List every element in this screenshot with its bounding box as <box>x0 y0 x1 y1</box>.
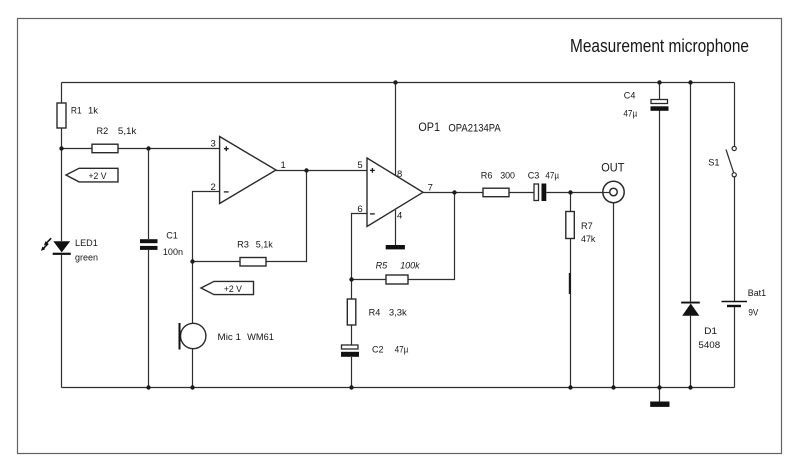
svg-text:6: 6 <box>357 204 362 215</box>
svg-text:100n: 100n <box>163 247 183 258</box>
svg-text:47µ: 47µ <box>395 344 409 355</box>
node dot R2/C1 <box>146 146 150 150</box>
svg-text:Measurement microphone: Measurement microphone <box>570 35 749 56</box>
svg-text:R1: R1 <box>71 105 82 116</box>
svg-text:5,1k: 5,1k <box>256 240 273 251</box>
svg-text:5,1k: 5,1k <box>118 126 137 137</box>
svg-text:Bat1: Bat1 <box>748 288 766 299</box>
wire C4 to bottom rail <box>659 111 661 388</box>
wire LED to bottom rail <box>61 255 63 388</box>
wire op-amp2 output <box>423 192 483 194</box>
wire R2 to op-amp1 pin3 <box>118 148 220 150</box>
svg-text:47µ: 47µ <box>545 171 559 182</box>
svg-text:1: 1 <box>281 160 286 171</box>
svg-text:1k: 1k <box>88 105 98 116</box>
wire R3 to output node <box>266 171 307 262</box>
wire feedback R5 right leg <box>408 193 455 280</box>
svg-text:R4: R4 <box>369 307 381 318</box>
svg-text:C4: C4 <box>624 91 636 102</box>
resistor R4 <box>347 299 407 325</box>
resistor R2 <box>92 126 137 153</box>
capacitor C2 <box>341 344 409 356</box>
node +2V flag 1 <box>66 168 118 182</box>
svg-text:47k: 47k <box>581 234 596 245</box>
node dot C4 top rail <box>657 80 661 84</box>
wire D1 lower <box>690 316 692 388</box>
wire top rail <box>62 82 735 84</box>
svg-text:LED1: LED1 <box>75 238 98 249</box>
svg-text:3: 3 <box>211 138 216 149</box>
wire S1 upper <box>734 83 736 147</box>
capacitor C3 <box>528 171 560 202</box>
node dot OUT bottom rail <box>611 385 615 389</box>
svg-text:C2: C2 <box>372 344 384 355</box>
svg-text:R7: R7 <box>581 221 593 232</box>
diode D1 <box>681 302 720 351</box>
svg-text:+2 V: +2 V <box>224 284 243 295</box>
wire OUT jack to bottom rail <box>613 203 615 388</box>
resistor R6 <box>481 171 515 197</box>
svg-text:D1: D1 <box>704 326 717 337</box>
svg-text:OUT: OUT <box>601 161 625 175</box>
svg-text:100k: 100k <box>400 261 421 272</box>
capacitor C4 <box>623 91 668 120</box>
microphone Mic1 <box>180 323 274 350</box>
svg-text:3,3k: 3,3k <box>389 307 407 318</box>
wire ground stub below rail <box>659 388 661 402</box>
svg-text:2: 2 <box>210 182 215 193</box>
svg-text:C1: C1 <box>166 231 178 242</box>
wire bottom rail <box>62 387 735 389</box>
wire R7 to bottom rail <box>570 239 572 388</box>
node dot pin6/R5/R4 <box>349 277 353 281</box>
resistor R3 <box>237 240 273 266</box>
node dot op-amp1 output <box>304 168 308 172</box>
wire C4 top stub <box>659 83 661 100</box>
svg-text:5: 5 <box>357 160 362 171</box>
wire node to R4 <box>351 280 353 300</box>
op-amp U1a <box>210 137 285 204</box>
battery Bat1 <box>722 288 767 319</box>
wire op-amp2 pin6 <box>352 214 368 280</box>
svg-text:R5: R5 <box>376 261 388 272</box>
svg-text:7: 7 <box>428 183 433 194</box>
node dot C1 bottom rail <box>146 385 150 389</box>
svg-text:WM61: WM61 <box>247 332 274 343</box>
svg-text:C3: C3 <box>528 171 540 182</box>
wire R4 to C2 <box>351 325 353 345</box>
svg-text:300: 300 <box>500 171 515 182</box>
wire R1 to LED <box>61 128 63 241</box>
svg-text:47µ: 47µ <box>623 108 637 119</box>
svg-text:9V: 9V <box>748 308 759 319</box>
wire thick segment on R7 branch <box>569 273 571 294</box>
svg-text:OP1: OP1 <box>418 120 440 134</box>
svg-text:green: green <box>75 253 98 264</box>
wire op-amp1 pin2 <box>193 192 220 262</box>
wire D1 upper <box>690 83 692 302</box>
node +2V flag 2 <box>201 281 254 294</box>
connector OUT <box>601 161 625 203</box>
node dot R7 bottom rail <box>568 385 572 389</box>
wire C1 to bottom rail <box>148 250 150 388</box>
wire R6 to C3 <box>509 192 534 194</box>
LED LED1 <box>41 238 98 264</box>
svg-text:4: 4 <box>397 210 402 221</box>
wire mic to bottom rail <box>192 349 194 388</box>
ground bar op-amp pin4 <box>386 245 405 249</box>
svg-text:R2: R2 <box>97 126 109 137</box>
wire battery to bottom rail <box>734 306 736 388</box>
wire C3 to OUT <box>546 192 603 194</box>
wire C2 to bottom rail <box>351 357 353 388</box>
svg-text:Mic 1: Mic 1 <box>218 332 242 343</box>
svg-text:R3: R3 <box>237 240 249 251</box>
svg-text:5408: 5408 <box>698 340 720 351</box>
node dot pin2/C1 row <box>190 259 194 263</box>
wire pin8 to top rail <box>395 83 397 176</box>
wire C1 branch down <box>148 149 150 240</box>
svg-text:S1: S1 <box>708 158 719 169</box>
node dot pin8 top rail <box>393 80 397 84</box>
wire left branch upper <box>61 83 63 104</box>
node dot C2 bottom rail <box>349 385 353 389</box>
svg-text:+2 V: +2 V <box>89 171 108 182</box>
node dot C4 bottom rail <box>657 385 661 389</box>
resistor R1 <box>57 103 98 128</box>
node dot D1 bottom rail <box>688 385 692 389</box>
resistor R5 <box>376 261 421 285</box>
wire node to R3 <box>193 261 241 263</box>
node dot C3/R7 <box>568 190 572 194</box>
svg-text:OPA2134PA: OPA2134PA <box>448 122 501 134</box>
svg-text:R6: R6 <box>481 171 493 182</box>
wire node to mic <box>192 262 194 324</box>
ground bar main <box>650 402 669 407</box>
node dot op-amp2 output/R5 <box>452 190 456 194</box>
resistor R7 <box>566 212 596 245</box>
node dot mic bottom rail <box>190 385 194 389</box>
wire op-amp1 output to op-amp2 pin5 <box>276 170 367 172</box>
op-amp OP1 <box>357 120 501 227</box>
wire pin4 to ground <box>395 210 397 245</box>
node dot D1 top rail <box>688 80 692 84</box>
wire R5 to node <box>352 279 387 281</box>
svg-text:8: 8 <box>397 169 402 180</box>
capacitor C1 <box>140 231 183 259</box>
wire R1 node to R2 <box>62 148 93 150</box>
wire R7 branch <box>570 193 572 212</box>
switch S1 <box>708 146 736 177</box>
wire S1 to battery <box>734 177 736 302</box>
node dot R1/R2 <box>59 146 63 150</box>
